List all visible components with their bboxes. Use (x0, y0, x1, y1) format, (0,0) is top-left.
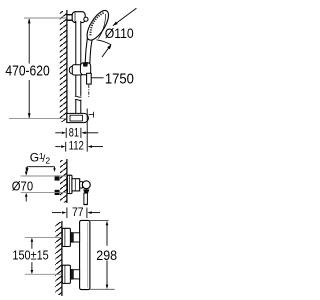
spray face nozzle band (90, 13, 103, 36)
thermostat body (profile) (80, 220, 90, 289)
svg-text:Ø70: Ø70 (12, 179, 33, 194)
svg-text:150±15: 150±15 (12, 248, 48, 263)
head inner edge line (98, 14, 105, 39)
svg-text:298: 298 (96, 247, 117, 263)
label G 1/2 (30, 150, 51, 165)
slide bar (76, 21, 81, 114)
hose centerline (dash-dot) (88, 85, 90, 98)
dimension Ø110 upper leader (113, 8, 136, 25)
dimension 150±15 (12, 237, 62, 274)
thermostat body (side) (72, 179, 80, 191)
svg-text:81: 81 (69, 126, 79, 140)
glider left knob (69, 66, 76, 74)
Ø70 extension lines (21, 175, 67, 177)
svg-text:470-620: 470-620 (5, 63, 49, 79)
supply pipe stubs (in wall) (55, 175, 60, 180)
leader 1750 (91, 77, 103, 79)
dimension Ø110 lower leader (102, 45, 111, 57)
hand shower handle (85, 37, 92, 63)
svg-text:2: 2 (45, 156, 50, 166)
handle tip in cup (dark) (83, 63, 88, 67)
escutcheon (edge view) (67, 175, 72, 193)
extension line top (470-620) (24, 17, 67, 19)
hand shower head (83, 7, 113, 43)
G1/2 leader with two down arrows (26, 167, 56, 172)
bar break symbol (75, 96, 82, 101)
arrow down (470-620) (28, 113, 31, 118)
dimension line 470-620 (28, 19, 30, 64)
dimension 81 (55, 126, 98, 140)
svg-text:1750: 1750 (105, 71, 134, 87)
wall hatch (bottom view) (55, 222, 62, 295)
upper connection (62, 228, 79, 246)
wall line (middle view) (66, 159, 68, 203)
svg-text:112: 112 (69, 139, 85, 153)
cap end knob (84, 17, 88, 21)
svg-text:Ø110: Ø110 (105, 26, 134, 41)
mount inner detail (70, 115, 82, 121)
svg-text:G: G (30, 150, 39, 164)
dimension 77 (52, 205, 100, 219)
lower connection (62, 265, 79, 283)
Ø70 arrows (25, 167, 27, 172)
top wall bracket arm (67, 15, 74, 21)
bar top cap (72, 12, 85, 23)
wall line (top view) (66, 10, 68, 123)
arrow up (470-620) (28, 18, 31, 23)
knob stem (80, 182, 83, 188)
wall hatch (middle view) (60, 160, 67, 203)
glider clamp (72, 65, 83, 75)
hose nipple (87, 73, 92, 84)
mount side mark (89, 113, 94, 115)
outlet nipple (84, 193, 88, 204)
svg-text:77: 77 (72, 205, 84, 219)
dimension 298 (90, 221, 117, 290)
extension line bottom (470-620) (9, 118, 68, 120)
wall hatch (top view) (60, 11, 67, 122)
dimension 112 (55, 109, 103, 153)
knob (circle) (82, 181, 90, 189)
holder cup (80, 63, 90, 75)
bottom bar mount (67, 113, 88, 122)
outlet wedge (83, 189, 89, 193)
wall line (bottom view) (61, 221, 63, 296)
head lower-right silhouette (97, 40, 112, 45)
